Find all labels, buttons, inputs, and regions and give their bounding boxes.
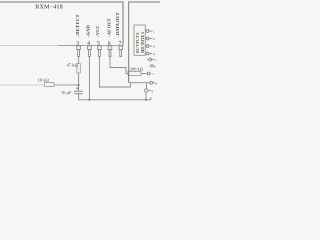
svg-text:1: 1: [153, 30, 155, 34]
svg-text:OUTPUTS: OUTPUTS: [136, 32, 140, 53]
svg-text:3: 3: [153, 45, 155, 49]
svg-text:RXM−418: RXM−418: [35, 5, 63, 11]
svg-text:5: 5: [154, 58, 156, 62]
svg-text:–GND: –GND: [86, 24, 91, 38]
svg-text:10 μF: 10 μF: [61, 90, 72, 95]
svg-text:47 kΩ: 47 kΩ: [67, 62, 79, 67]
svg-text:10 kΩ: 10 kΩ: [38, 77, 50, 82]
svg-text:–VCC: –VCC: [95, 25, 100, 38]
svg-text:SEE NOTE 5: SEE NOTE 5: [141, 32, 145, 53]
svg-text:4: 4: [153, 52, 155, 56]
svg-text:8: 8: [155, 81, 157, 85]
svg-text:9: 9: [151, 89, 153, 93]
svg-text:6: 6: [154, 64, 156, 68]
svg-text:–AF OUT: –AF OUT: [106, 18, 111, 38]
svg-text:390 kΩ: 390 kΩ: [130, 66, 144, 71]
svg-text:–DETECT: –DETECT: [75, 14, 80, 38]
svg-text:2: 2: [153, 37, 155, 41]
svg-text:–DATA OUT: –DATA OUT: [115, 12, 120, 38]
svg-text:7: 7: [152, 72, 154, 76]
